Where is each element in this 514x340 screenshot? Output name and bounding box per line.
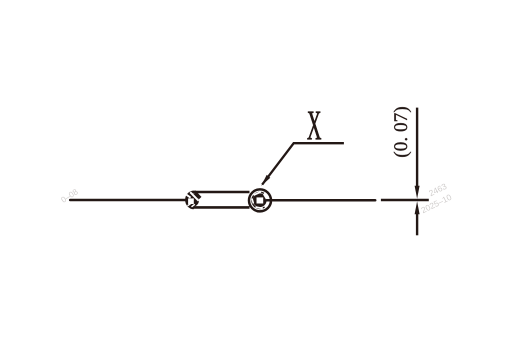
right socket white square hole: [257, 197, 264, 203]
watermark 0-08: [60, 189, 78, 203]
dimension upper extension line: [416, 108, 418, 188]
left socket white slash bottom-mid: [192, 204, 195, 207]
wire centerline right segment: [263, 199, 375, 202]
right socket white notch top-right: [264, 194, 267, 199]
right inner arc: [252, 192, 265, 208]
component body rectangle top line: [193, 191, 250, 194]
label X: [307, 112, 321, 140]
dimension lower arrowhead (up): [415, 201, 420, 214]
dimension text (0. 07) rotated: [394, 107, 412, 157]
left socket white square hole: [188, 198, 194, 204]
leader line from X: [262, 143, 344, 184]
dimension upper arrowhead (down): [415, 186, 420, 199]
left socket dark ring: [186, 194, 199, 207]
watermark text 2025-10: [421, 194, 452, 213]
leader arrowhead: [261, 175, 270, 186]
right socket white slash bottom: [256, 207, 263, 208]
right socket white notch left: [252, 199, 253, 204]
right end circle group: [249, 189, 271, 211]
right outer circle: [249, 189, 271, 211]
watermark 2463 / 2025-10: [421, 183, 452, 213]
left socket white slash top-left: [186, 195, 190, 198]
watermark text 2463: [428, 183, 447, 196]
wire centerline left segment: [70, 199, 186, 202]
left socket diagonal band: [194, 191, 200, 198]
left cap outer arc: [186, 192, 193, 208]
dimension lower extension line: [416, 212, 418, 235]
right socket dark ring: [253, 193, 267, 207]
component body rectangle bottom line: [193, 206, 250, 209]
left socket big white slash: [190, 192, 199, 201]
left end cap group: [186, 191, 201, 208]
right socket white slash top: [254, 192, 262, 195]
left socket white slash bottom-left: [188, 204, 191, 206]
dimension tick segment: [381, 199, 429, 202]
